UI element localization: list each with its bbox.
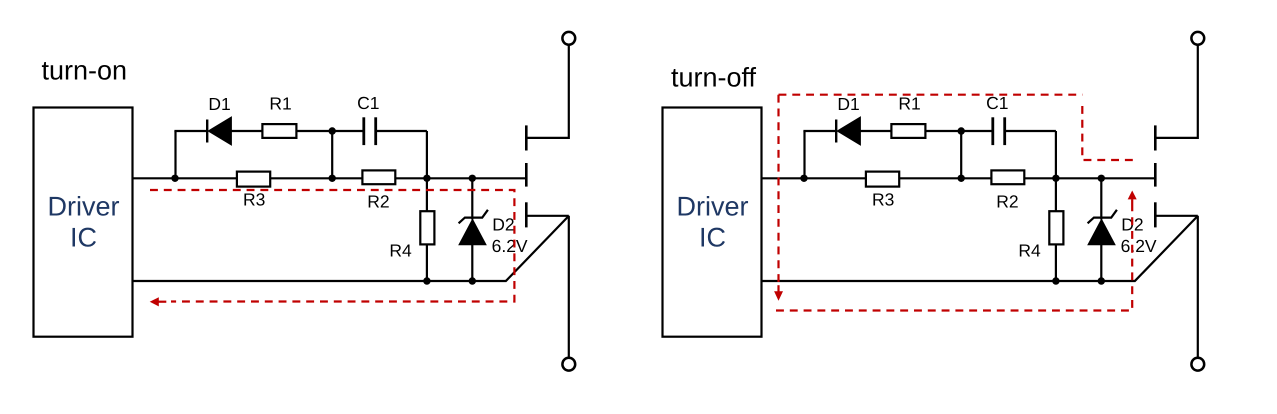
terminal drain circle [562,32,575,45]
resistor R1 [262,124,296,138]
node rail D2 [469,277,476,284]
svg-text:turn-off: turn-off [671,63,757,93]
node top mid [958,127,965,134]
svg-text:Driver: Driver [48,192,120,222]
wire top branch vertical [803,131,805,178]
wire source down [1197,216,1199,358]
arrowhead turn-off up [1128,191,1137,200]
wire R4 branch upper [426,178,428,210]
wire R4 branch lower [1055,244,1057,281]
resistor R1 [891,124,925,138]
diode D1 [836,117,860,145]
resistor R2 [991,170,1024,184]
svg-text:D1: D1 [837,94,859,114]
current path turn-off bottom edge and up shaft [776,210,1132,311]
svg-text:IC: IC [70,222,97,252]
diode D1 [207,117,231,145]
svg-text:turn-on: turn-on [42,55,128,85]
svg-text:C1: C1 [986,93,1008,113]
terminal source circle [1191,358,1204,371]
svg-text:R2: R2 [367,191,389,211]
resistor R3 [866,172,899,187]
zener diode D2 [1088,210,1117,245]
node rail D2 [1098,277,1105,284]
terminal drain circle [1191,32,1204,45]
svg-text:R4: R4 [389,241,412,261]
node gate left [171,175,178,182]
node rail R4 [423,277,430,284]
current path turn-off top edge [779,94,1083,96]
node gate D2 [1098,175,1105,182]
svg-text:R1: R1 [898,93,920,113]
wire R4 branch upper [1055,178,1057,210]
current path turn-off left edge [777,95,779,282]
svg-text:R2: R2 [996,191,1018,211]
wire D1 to R1 [860,130,891,132]
Driver IC box U1 [34,108,133,337]
wire mid vertical [331,131,333,178]
resistor R3 [237,172,270,187]
svg-text:6.2V: 6.2V [1121,236,1157,256]
MOSFET source wire [1155,215,1198,217]
current path turn-off right upper elbow to gate [1082,106,1133,160]
wire source diagonal [506,216,569,281]
svg-text:IC: IC [699,222,726,252]
wire D2 branch lower [471,245,473,281]
node gate R4 [1052,175,1059,182]
resistor R4 [420,211,434,244]
wire D1 to R1 [231,130,262,132]
arrowhead turn-on [150,297,159,306]
zener diode D2 [459,210,488,245]
resistor R2 [362,170,395,184]
svg-text:6.2V: 6.2V [492,236,528,256]
Driver IC box U2 [663,108,762,337]
node rail R4 [1052,277,1059,284]
wire mid vertical [960,131,962,178]
svg-text:R1: R1 [269,93,291,113]
node gate mid [329,175,336,182]
current path turn-on (dashed loop) [150,190,514,302]
arrowhead turn-off down [774,291,783,301]
svg-text:Driver: Driver [677,192,749,222]
node gate R4 [423,175,430,182]
MOSFET drain wire [526,45,569,138]
wire right vertical down [426,131,428,178]
wire top branch vertical [174,131,176,178]
wire top branch to D1 [803,130,836,132]
svg-text:C1: C1 [357,93,379,113]
wire D2 branch upper [1100,178,1102,219]
wire gate line [762,177,1156,179]
node top mid [329,127,336,134]
wire D2 branch lower [1100,245,1102,281]
wire C1 to right vertical [1005,130,1056,132]
wire gate line [133,177,527,179]
arrowhead turn-on shaft [159,301,167,303]
wire source diagonal [1135,216,1198,281]
wire R1 to C1 [296,130,363,132]
wire source down [568,216,570,358]
MOSFET Q2 channel bar segments [1154,125,1157,227]
capacitor C1 [364,117,376,145]
terminal source circle [562,358,575,371]
arrowhead turn-off down shaft [777,285,779,291]
resistor R4 [1049,211,1063,244]
MOSFET drain wire [1155,45,1198,138]
arrowhead turn-off up shaft [1131,199,1133,210]
wire bottom rail [762,280,1136,282]
wire top branch to D1 [174,130,207,132]
wire right vertical down [1055,131,1057,178]
svg-text:D2: D2 [492,215,514,235]
wire bottom rail [133,280,507,282]
MOSFET source wire [526,215,569,217]
svg-text:D1: D1 [208,94,230,114]
node gate left [800,175,807,182]
svg-text:R3: R3 [872,190,894,210]
capacitor C1 [993,117,1005,145]
node gate D2 [469,175,476,182]
svg-text:R3: R3 [243,190,265,210]
MOSFET Q1 channel bar segments [525,125,528,227]
wire R1 to C1 [925,130,992,132]
wire C1 to right vertical [376,130,427,132]
svg-text:R4: R4 [1018,241,1041,261]
wire R4 branch lower [426,244,428,281]
node gate mid [958,175,965,182]
wire D2 branch upper [471,178,473,219]
